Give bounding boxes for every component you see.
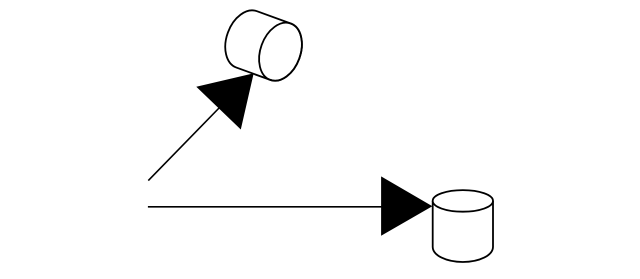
wire: horizontal line to arrowhead [148,206,384,208]
arrowhead A2 (horizontal arrow pointing right at vertical cylinder) [382,177,432,235]
arrowhead A1 (diagonal arrow pointing up-right at tilted cylinder) [197,74,253,129]
wire: diagonal line from lower-left to arrowhead [148,106,221,181]
cylinder D1 (tilted data store, top) [218,4,310,86]
cylinder D2 (vertical data store, bottom right) [433,190,493,262]
